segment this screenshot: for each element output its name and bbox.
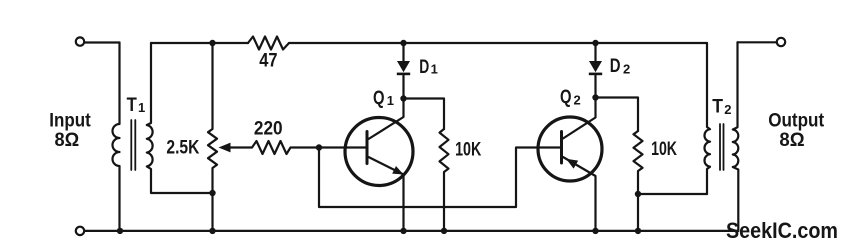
junction dot top rail x pot	[209, 40, 215, 46]
terminal output top	[777, 38, 785, 46]
svg-text:Q: Q	[560, 87, 572, 108]
svg-text:D: D	[419, 57, 429, 78]
junction node T1 secondary x pot	[209, 190, 215, 196]
junction node 10K2 x T2 primary	[635, 191, 641, 197]
junction dot top rail x D2	[592, 40, 598, 46]
diode D2 cathode bar	[589, 73, 602, 76]
transformer T1 primary winding	[113, 43, 120, 231]
junction dot bottom rail x T1 primary	[117, 228, 123, 234]
wire D1 node to 10K resistor 1	[404, 99, 445, 130]
diode D2 triangle	[589, 61, 602, 72]
svg-text:1: 1	[138, 100, 145, 115]
svg-text:8Ω: 8Ω	[779, 130, 804, 151]
diode D1 cathode bar	[397, 73, 410, 76]
junction dot bottom rail x 10K1	[441, 228, 447, 234]
transistor Q1 emitter arrow	[392, 166, 403, 175]
svg-text:47: 47	[259, 50, 277, 71]
transistor Q1 base bar	[366, 132, 369, 164]
svg-text:Output: Output	[768, 110, 825, 131]
svg-text:1: 1	[387, 93, 394, 108]
svg-text:2: 2	[724, 102, 731, 117]
junction dot bottom rail x Q1 emitter	[400, 228, 406, 234]
svg-text:Input: Input	[49, 110, 91, 131]
junction dot bottom rail x pot	[209, 228, 215, 234]
transistor Q2 emitter	[563, 157, 596, 231]
diode D1 leads	[402, 43, 404, 99]
wire bottom rail	[85, 230, 739, 232]
svg-text:2: 2	[574, 92, 581, 107]
svg-text:Q: Q	[373, 88, 385, 109]
transistor Q2 circle	[538, 117, 602, 181]
transistor Q1 circle	[345, 118, 413, 186]
potentiometer wiper arrow	[219, 143, 231, 153]
wire top rail right segment	[289, 42, 707, 44]
diode D2 leads	[594, 43, 596, 98]
svg-text:8Ω: 8Ω	[55, 130, 80, 151]
wire wiper to 220 to Q1 base	[230, 141, 367, 154]
transistor Q2 collector	[563, 98, 596, 139]
transformer T1 secondary winding	[147, 43, 213, 193]
svg-text:T: T	[127, 95, 138, 116]
resistor 10K first	[440, 129, 449, 231]
wire D2 node to 10K resistor 2	[596, 98, 639, 132]
transistor Q2 base bar	[560, 132, 563, 164]
transistor Q1 collector	[369, 99, 404, 140]
terminal input top	[76, 37, 84, 45]
diode D1 triangle	[397, 61, 410, 72]
transformer T2 secondary winding	[733, 42, 739, 231]
resistor 10K second	[634, 131, 643, 231]
svg-text:D: D	[610, 56, 621, 77]
svg-text:2: 2	[623, 62, 630, 77]
transformer T1 core	[131, 120, 135, 170]
junction dot top rail x D1	[400, 40, 406, 46]
transformer T2 primary winding	[704, 43, 710, 194]
svg-text:10K: 10K	[651, 139, 677, 160]
junction node D2 cathode	[592, 94, 598, 100]
wire top rail left segment	[151, 42, 248, 44]
potentiometer 2.5K	[208, 43, 217, 231]
transformer T2 core	[720, 124, 724, 170]
svg-text:10K: 10K	[455, 140, 481, 161]
wire top-left terminal to T1 primary	[85, 41, 120, 43]
wire T2 primary bottom to 10K node	[638, 193, 707, 195]
svg-text:220: 220	[254, 119, 283, 140]
transistor Q1 emitter	[369, 157, 404, 231]
svg-text:T: T	[712, 96, 723, 117]
terminal input bottom	[76, 227, 84, 235]
wire output terminal to T2 secondary	[738, 41, 777, 43]
transistor Q2 emitter arrow	[566, 159, 578, 169]
wire Q1 base to Q2 base	[319, 148, 562, 208]
svg-text:2.5K: 2.5K	[166, 137, 199, 158]
junction dot bottom rail x 10K2	[635, 228, 641, 234]
junction node D1 cathode	[400, 95, 406, 101]
junction dot bottom rail x Q2 emitter	[592, 228, 598, 234]
resistor 47	[248, 37, 289, 50]
svg-text:SeekIC.com: SeekIC.com	[726, 218, 838, 243]
junction node Q1 base	[316, 144, 322, 150]
svg-text:1: 1	[431, 62, 438, 77]
